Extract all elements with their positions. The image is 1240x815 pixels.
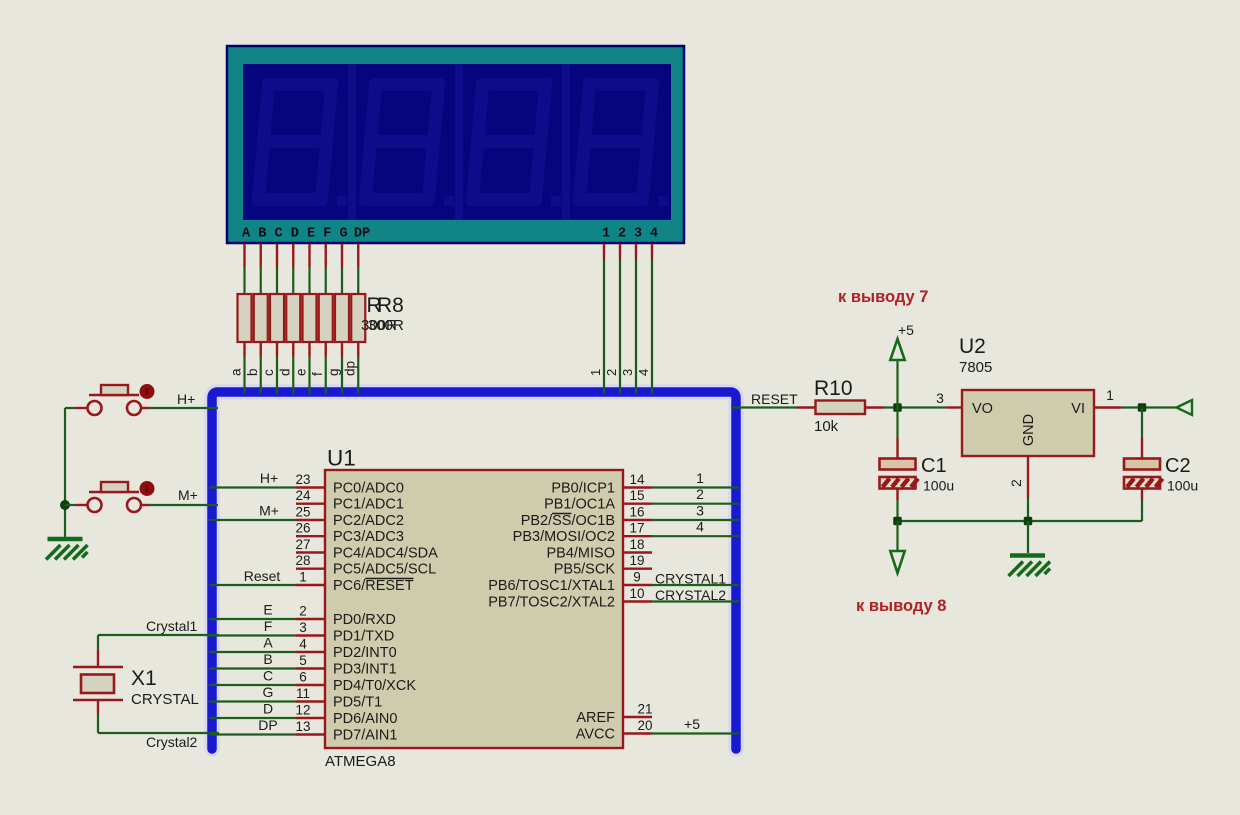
net labels 1 2 3 4 on U1 right wires	[696, 470, 704, 535]
svg-text:C2: C2	[1165, 455, 1191, 477]
svg-text:AREF: AREF	[576, 710, 615, 726]
push button M+	[65, 481, 155, 512]
svg-text:PB5/SCK: PB5/SCK	[554, 562, 616, 578]
svg-text:28: 28	[295, 553, 310, 568]
svg-text:4: 4	[299, 637, 307, 652]
svg-text:3: 3	[634, 227, 642, 242]
svg-text:27: 27	[295, 537, 310, 552]
power terminal arrow down (to pin 8)	[890, 521, 904, 573]
wire crystal top to MCU frame, net Crystal1	[98, 618, 219, 650]
junction U2 pin2 / rail	[1024, 517, 1033, 526]
svg-text:2: 2	[1008, 479, 1024, 487]
svg-text:PD6/AIN0: PD6/AIN0	[333, 711, 397, 727]
svg-text:4: 4	[696, 519, 704, 535]
svg-text:+5: +5	[898, 322, 914, 338]
svg-text:20: 20	[637, 718, 652, 733]
svg-text:Crystal1: Crystal1	[146, 618, 198, 634]
svg-text:1: 1	[588, 369, 603, 376]
svg-text:13: 13	[295, 719, 310, 734]
U1 PB2 SS overline	[552, 513, 571, 515]
svg-text:3: 3	[936, 390, 944, 406]
net labels E F A B C G D DP on U1 left wires	[258, 602, 277, 734]
junction U2 pin1 / C2	[1138, 403, 1147, 412]
svg-text:GND: GND	[1021, 414, 1037, 446]
svg-text:PC2/ADC2: PC2/ADC2	[333, 513, 404, 529]
U1 right pin numbers	[629, 472, 652, 733]
svg-text:D: D	[291, 227, 299, 242]
svg-text:PD0/RXD: PD0/RXD	[333, 612, 396, 628]
svg-text:F: F	[323, 227, 331, 242]
svg-text:d: d	[277, 368, 292, 376]
svg-text:PB2/SS/OC1B: PB2/SS/OC1B	[521, 513, 615, 529]
microcontroller U1 ATMEGA8 body	[325, 470, 623, 748]
svg-text:PB4/MISO: PB4/MISO	[547, 546, 616, 562]
svg-text:PD4/T0/XCK: PD4/T0/XCK	[333, 678, 416, 694]
svg-text:10: 10	[629, 586, 644, 601]
svg-text:10k: 10k	[814, 418, 839, 435]
crystal X1	[73, 650, 123, 713]
svg-text:12: 12	[295, 703, 310, 718]
svg-text:PD1/TXD: PD1/TXD	[333, 629, 394, 645]
svg-text:PC4/ADC4/SDA: PC4/ADC4/SDA	[333, 546, 438, 562]
svg-text:f: f	[310, 372, 325, 376]
power terminal +5 (arrow up)	[890, 322, 914, 408]
svg-text:b: b	[245, 368, 260, 376]
svg-text:e: e	[294, 368, 309, 376]
wire vertical bus left (buttons common)	[64, 408, 66, 537]
wire button H+ to MCU frame, net label H+	[150, 391, 218, 408]
input terminal (left-pointing triangle)	[1177, 400, 1193, 415]
svg-text:PC1/ADC1: PC1/ADC1	[333, 497, 404, 513]
svg-text:CRYSTAL1: CRYSTAL1	[655, 571, 726, 587]
svg-text:PB1/OC1A: PB1/OC1A	[544, 497, 615, 513]
U2 pin labels VO VI GND	[946, 401, 1085, 446]
svg-text:VI: VI	[1071, 401, 1085, 417]
svg-text:U2: U2	[959, 335, 986, 358]
svg-text:14: 14	[629, 472, 645, 487]
svg-text:VO: VO	[972, 401, 993, 417]
U2 pin 1 wire to input, pin number 1	[1094, 387, 1176, 408]
svg-text:2: 2	[299, 604, 307, 619]
svg-text:PB3/MOSI/OC2: PB3/MOSI/OC2	[513, 529, 615, 545]
svg-text:dp: dp	[342, 361, 357, 376]
svg-text:Crystal2: Crystal2	[146, 734, 198, 750]
display DS1 4-digit 7-segment module	[227, 46, 684, 243]
wires display to resistors	[245, 267, 359, 294]
U1 right pin names	[488, 481, 615, 743]
svg-text:300R: 300R	[368, 317, 404, 334]
svg-text:3: 3	[620, 369, 635, 376]
svg-text:PD5/T1: PD5/T1	[333, 695, 382, 711]
svg-text:C: C	[274, 227, 282, 242]
svg-text:B: B	[258, 227, 266, 242]
svg-text:G: G	[263, 684, 274, 700]
wire crystal bottom to MCU frame, net Crystal2	[98, 713, 219, 750]
capacitor C2	[1124, 408, 1163, 522]
svg-text:G: G	[339, 227, 347, 242]
svg-text:PB7/TOSC2/XTAL2: PB7/TOSC2/XTAL2	[488, 595, 615, 611]
U1 left pin numbers	[295, 472, 311, 734]
svg-text:9: 9	[633, 570, 641, 585]
svg-text:B: B	[263, 651, 272, 667]
svg-text:7805: 7805	[959, 359, 992, 376]
svg-text:A: A	[242, 227, 251, 242]
junction R10 / +5 / C1	[893, 403, 902, 412]
svg-text:PB6/TOSC1/XTAL1: PB6/TOSC1/XTAL1	[488, 578, 615, 594]
svg-text:2: 2	[696, 486, 704, 502]
svg-text:1: 1	[299, 570, 307, 585]
svg-text:DP: DP	[258, 717, 277, 733]
svg-text:+5: +5	[684, 716, 700, 732]
svg-text:C1: C1	[921, 455, 947, 477]
svg-text:g: g	[326, 368, 341, 376]
svg-text:PD3/INT1: PD3/INT1	[333, 662, 397, 678]
svg-text:2: 2	[618, 227, 626, 242]
display segment pins (maroon stubs)	[245, 244, 359, 268]
svg-text:H+: H+	[260, 470, 278, 486]
ground symbol (buttons)	[46, 539, 88, 560]
junction M+ button to ground wire	[60, 500, 70, 510]
svg-text:5: 5	[299, 653, 307, 668]
svg-text:E: E	[263, 602, 272, 618]
svg-text:к выводу 8: к выводу 8	[856, 597, 946, 615]
svg-text:6: 6	[299, 670, 307, 685]
display digit pins and wires 1-4 to MCU frame	[588, 244, 652, 394]
svg-text:PD2/INT0: PD2/INT0	[333, 645, 397, 661]
svg-text:R10: R10	[814, 377, 853, 400]
svg-text:PC0/ADC0: PC0/ADC0	[333, 481, 404, 497]
svg-text:3: 3	[299, 620, 307, 635]
push button H+	[65, 384, 155, 415]
svg-text:M+: M+	[259, 503, 279, 519]
svg-text:CRYSTAL: CRYSTAL	[131, 691, 199, 708]
svg-text:M+: M+	[178, 487, 198, 503]
svg-text:R8: R8	[377, 294, 404, 317]
svg-text:100u: 100u	[923, 478, 954, 494]
wire MCU frame to R10, net label RESET	[731, 391, 798, 408]
svg-text:RESET: RESET	[751, 391, 798, 407]
net labels CRYSTAL1 CRYSTAL2	[655, 571, 726, 604]
net labels H+ M+ Reset on U1 left wires	[244, 470, 281, 584]
regulator U2 7805 body	[962, 390, 1094, 456]
svg-text:4: 4	[650, 227, 658, 242]
RR8 value labels 300R (overlapping)	[361, 317, 404, 334]
svg-text:2: 2	[604, 369, 619, 376]
svg-text:D: D	[263, 701, 273, 717]
MCU frame (thick blue outline)	[212, 392, 736, 749]
resistor pack RR8 (8 x 300R)	[238, 294, 366, 342]
wire R10 to U2 pin 3, pin number 3	[884, 390, 946, 408]
resistor R10	[797, 401, 884, 415]
svg-text:18: 18	[629, 537, 644, 552]
U1 right pin stubs	[623, 488, 652, 734]
svg-text:U1: U1	[327, 446, 356, 471]
svg-text:100u: 100u	[1167, 478, 1198, 494]
svg-text:C: C	[263, 668, 273, 684]
svg-text:к выводу 7: к выводу 7	[838, 288, 928, 306]
svg-text:ATMEGA8: ATMEGA8	[325, 753, 396, 770]
svg-text:a: a	[229, 368, 244, 376]
svg-text:1: 1	[696, 470, 704, 486]
ground symbol (U2)	[1009, 521, 1051, 576]
svg-text:X1: X1	[131, 667, 157, 690]
U1 left pin names	[333, 481, 438, 744]
svg-text:1: 1	[1106, 387, 1114, 403]
RR8 reference label	[367, 294, 404, 317]
svg-text:Reset: Reset	[244, 568, 281, 584]
svg-text:24: 24	[295, 488, 311, 503]
svg-text:26: 26	[295, 521, 310, 536]
svg-text:E: E	[307, 227, 315, 242]
svg-text:PC3/ADC3: PC3/ADC3	[333, 529, 404, 545]
svg-text:DP: DP	[354, 227, 370, 242]
svg-text:PB0/ICP1: PB0/ICP1	[551, 481, 615, 497]
wire button M+ to MCU frame, net label M+	[150, 487, 218, 505]
svg-text:1: 1	[602, 227, 610, 242]
svg-text:AVCC: AVCC	[576, 727, 615, 743]
U2 pin 2 (GND) wire down, pin number 2	[1008, 456, 1028, 521]
svg-text:PD7/AIN1: PD7/AIN1	[333, 728, 397, 744]
svg-text:17: 17	[629, 521, 644, 536]
svg-text:16: 16	[629, 505, 644, 520]
svg-text:3: 3	[696, 503, 704, 519]
svg-text:15: 15	[629, 488, 644, 503]
svg-text:PC5/ADC5/SCL: PC5/ADC5/SCL	[333, 562, 436, 578]
wires resistors to MCU frame, net labels a-dp	[229, 342, 359, 394]
junction C1 / rail	[893, 517, 902, 526]
U1 left pin stubs	[296, 488, 325, 735]
ground rail wire	[898, 520, 1143, 522]
svg-text:21: 21	[637, 702, 652, 717]
svg-text:H+: H+	[177, 391, 195, 407]
svg-text:PC6/RESET: PC6/RESET	[333, 578, 414, 594]
svg-text:19: 19	[629, 553, 644, 568]
svg-text:c: c	[261, 369, 276, 376]
display segment pin labels A-G DP	[242, 227, 370, 242]
svg-text:F: F	[264, 618, 273, 634]
svg-text:23: 23	[295, 472, 310, 487]
svg-text:25: 25	[295, 505, 310, 520]
svg-text:4: 4	[636, 369, 651, 376]
display digit pin labels 1 2 3 4	[602, 227, 658, 242]
svg-text:CRYSTAL2: CRYSTAL2	[655, 587, 726, 603]
wires U1 right pins to MCU frame	[652, 488, 739, 734]
svg-text:A: A	[263, 635, 273, 651]
wires MCU frame to U1 left pins	[209, 488, 296, 735]
capacitor C1	[880, 408, 919, 522]
U1 PC6/RESET overline	[365, 578, 413, 580]
svg-text:11: 11	[296, 686, 310, 701]
